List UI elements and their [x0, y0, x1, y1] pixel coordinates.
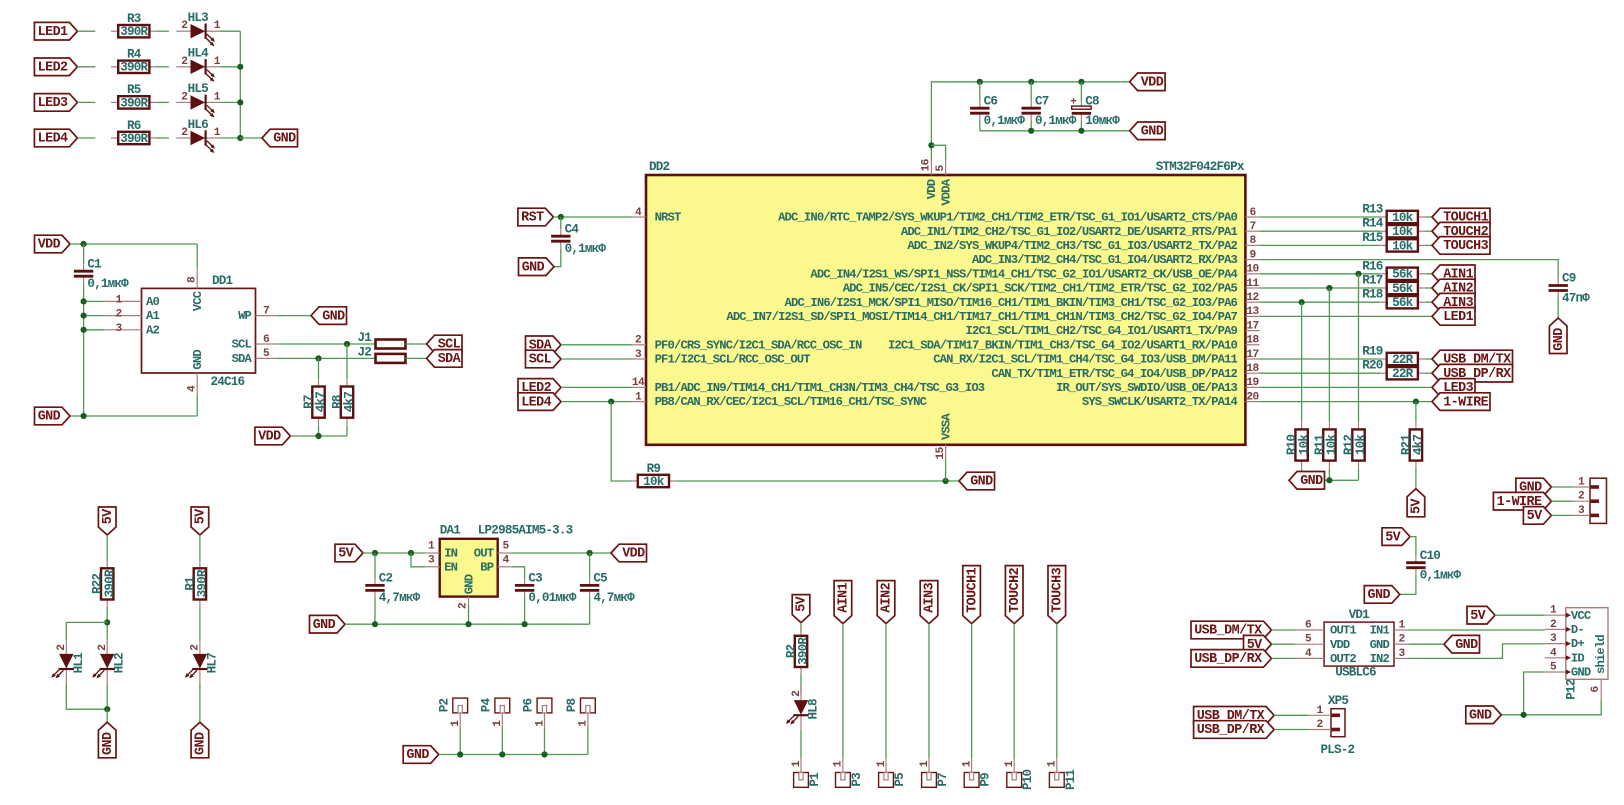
svg-text:R20: R20	[1362, 359, 1383, 373]
svg-text:OUT2: OUT2	[1330, 652, 1356, 666]
wire R9 to GND	[676, 480, 959, 482]
ic VD1 USBLC6	[1295, 608, 1408, 679]
wire VDDA branch	[931, 145, 945, 161]
svg-text:GND: GND	[1571, 666, 1591, 680]
resistor R18	[1380, 296, 1426, 310]
wire	[1551, 486, 1572, 488]
svg-text:P1: P1	[808, 772, 822, 787]
global label TOUCH3	[1048, 566, 1066, 624]
wire	[842, 624, 844, 759]
wire	[1260, 287, 1380, 289]
svg-text:14: 14	[632, 377, 645, 389]
svg-text:GND: GND	[38, 410, 61, 425]
global label AIN3	[920, 581, 938, 624]
global label LED2	[34, 58, 77, 76]
global label GND	[98, 722, 116, 758]
svg-text:GND: GND	[462, 574, 476, 594]
ic DD2 STM32F042F6Px	[632, 158, 1260, 459]
resistor R4	[111, 48, 157, 75]
svg-text:ID: ID	[1571, 651, 1584, 665]
svg-text:10k: 10k	[1392, 225, 1414, 239]
svg-text:P3: P3	[850, 773, 864, 787]
wire	[318, 425, 320, 436]
junction	[408, 550, 414, 556]
svg-text:22R: 22R	[1392, 353, 1414, 367]
svg-text:C8: C8	[1085, 94, 1099, 108]
svg-text:C1: C1	[87, 257, 102, 271]
wire	[220, 137, 240, 139]
svg-text:CAN_RX/I2C1_SCL/TIM1_CH4/TSC_G: CAN_RX/I2C1_SCL/TIM1_CH4/TSC_G4_IO3/USB_…	[933, 353, 1237, 367]
global label AIN2	[877, 581, 895, 624]
wire RST net	[553, 216, 632, 218]
svg-text:SCL: SCL	[232, 338, 252, 352]
junction	[1078, 79, 1084, 85]
wire EN	[411, 553, 426, 567]
pad P4	[480, 698, 510, 728]
wire	[199, 684, 201, 723]
wire	[1425, 301, 1432, 303]
svg-text:0,1мкФ: 0,1мкФ	[87, 277, 129, 291]
svg-text:GND: GND	[1368, 588, 1391, 603]
capacitor C4	[551, 222, 606, 256]
wire C2	[374, 553, 376, 578]
wire VDD rail	[931, 82, 1129, 161]
capacitor C3	[515, 572, 577, 606]
svg-text:HL7: HL7	[205, 653, 219, 674]
svg-text:LED2: LED2	[38, 61, 68, 76]
svg-text:5V: 5V	[1410, 498, 1425, 514]
svg-text:1: 1	[534, 720, 546, 727]
svg-text:GND: GND	[101, 732, 116, 755]
wire VDD out	[512, 552, 611, 554]
svg-text:LED1: LED1	[38, 25, 68, 40]
svg-text:I2C1_SCL/TIM1_CH2/TSC_G4_IO1/U: I2C1_SCL/TIM1_CH2/TSC_G4_IO1/USART1_TX/P…	[966, 324, 1238, 338]
svg-text:11: 11	[1246, 278, 1259, 290]
svg-text:2: 2	[1398, 634, 1405, 646]
wire	[1056, 624, 1058, 759]
junction	[587, 550, 593, 556]
wire	[77, 30, 95, 32]
svg-text:STM32F042F6Px: STM32F042F6Px	[1156, 160, 1245, 174]
svg-text:390R: 390R	[120, 96, 148, 110]
svg-text:VDD: VDD	[1330, 638, 1350, 652]
svg-text:9: 9	[1249, 249, 1256, 261]
global label 5V	[1467, 606, 1495, 624]
svg-text:1: 1	[919, 760, 931, 767]
svg-text:56k: 56k	[1392, 268, 1414, 282]
resistor R1	[183, 561, 209, 607]
global label GND	[1516, 478, 1552, 496]
svg-text:EN: EN	[444, 560, 457, 574]
wire	[1425, 230, 1432, 232]
junction	[558, 214, 564, 220]
svg-text:P9: P9	[979, 773, 993, 787]
svg-text:2: 2	[190, 644, 202, 651]
wire	[199, 535, 201, 561]
junction	[943, 478, 949, 484]
svg-text:TOUCH3: TOUCH3	[1443, 239, 1488, 254]
svg-text:BP: BP	[480, 560, 493, 574]
svg-text:4: 4	[1550, 647, 1557, 659]
resistor R13	[1380, 211, 1426, 225]
svg-text:GND: GND	[522, 260, 545, 275]
connector P12	[1545, 605, 1608, 701]
global label GND	[1130, 122, 1166, 140]
pad P3	[833, 758, 864, 787]
svg-text:GND: GND	[1370, 638, 1390, 652]
wire	[1260, 301, 1380, 303]
svg-text:56k: 56k	[1392, 282, 1414, 296]
svg-text:D-: D-	[1571, 623, 1584, 637]
wire	[406, 343, 427, 345]
svg-text:2: 2	[635, 335, 642, 347]
svg-text:10k: 10k	[1392, 211, 1414, 225]
wire	[1425, 244, 1432, 246]
wire	[1358, 468, 1360, 480]
global label 5V	[792, 595, 810, 623]
svg-text:NRST: NRST	[655, 211, 681, 225]
wire	[800, 730, 802, 759]
global label GND	[1444, 635, 1480, 653]
wire	[1013, 624, 1015, 759]
svg-text:4: 4	[502, 555, 509, 567]
global label GND	[262, 129, 298, 147]
wire	[77, 137, 95, 139]
wire	[1272, 643, 1296, 645]
global label VDD	[611, 544, 647, 562]
wire HL1 branch	[66, 622, 107, 639]
wire	[501, 727, 503, 754]
svg-text:1: 1	[635, 391, 642, 403]
svg-text:5: 5	[935, 165, 947, 172]
global label 5V	[98, 507, 116, 535]
wire HL1 return	[66, 684, 107, 710]
svg-text:390R: 390R	[103, 569, 117, 597]
svg-text:10: 10	[1246, 264, 1259, 276]
svg-text:P2: P2	[437, 699, 451, 713]
capacitor C6	[970, 94, 1025, 128]
svg-text:1: 1	[1550, 605, 1557, 617]
junction	[1521, 712, 1527, 718]
wire	[1260, 216, 1380, 218]
svg-text:20: 20	[1246, 391, 1259, 403]
wire BP	[512, 567, 525, 579]
capacitor C10	[1406, 549, 1461, 583]
wire	[1030, 120, 1032, 131]
global label LED4	[34, 129, 77, 147]
resistor R19	[1380, 353, 1426, 367]
wire	[1274, 729, 1308, 731]
wire	[459, 727, 461, 754]
svg-text:2: 2	[1578, 491, 1585, 503]
wire	[561, 401, 632, 403]
wire	[1260, 273, 1380, 275]
wire SCL net	[277, 343, 376, 345]
wire 5V to C10	[1410, 537, 1416, 556]
wire	[199, 607, 201, 640]
LED HL4	[176, 47, 220, 82]
svg-text:1: 1	[1578, 477, 1585, 489]
junction	[81, 327, 87, 333]
capacitor C2	[365, 572, 420, 606]
svg-text:OUT1: OUT1	[1330, 624, 1356, 638]
wire	[1260, 372, 1380, 374]
wire	[240, 137, 262, 139]
global label GND	[403, 746, 439, 764]
wire	[1260, 386, 1432, 388]
svg-text:P4: P4	[480, 698, 494, 713]
svg-text:TOUCH2: TOUCH2	[1008, 567, 1023, 612]
wire	[1328, 468, 1330, 480]
wire	[84, 315, 105, 317]
svg-text:GND: GND	[1141, 125, 1164, 140]
resistor R11	[1313, 422, 1339, 468]
svg-text:IN: IN	[444, 547, 457, 561]
svg-text:HL2: HL2	[113, 653, 127, 674]
svg-text:VDD: VDD	[622, 547, 645, 562]
svg-text:390R: 390R	[120, 132, 148, 146]
junction	[608, 399, 614, 405]
svg-text:1: 1	[1047, 760, 1059, 767]
svg-text:3: 3	[428, 555, 435, 567]
svg-text:A2: A2	[146, 323, 159, 337]
svg-text:GND: GND	[1469, 709, 1492, 724]
svg-text:R19: R19	[1362, 345, 1383, 359]
svg-text:A0: A0	[146, 295, 159, 309]
svg-text:17: 17	[1246, 349, 1258, 361]
wire	[561, 344, 632, 346]
svg-text:CAN_TX/TIM1_ETR/TSC_G4_IO4/USB: CAN_TX/TIM1_ETR/TSC_G4_IO4/USB_DP/PA12	[991, 367, 1237, 381]
wire 1-WIRE pullup	[1415, 402, 1417, 422]
wire	[1272, 657, 1296, 659]
capacitor C1	[74, 257, 129, 291]
global label AIN1	[1432, 265, 1475, 283]
wire	[544, 727, 546, 754]
wire	[1557, 298, 1559, 319]
svg-text:LED4: LED4	[521, 395, 551, 410]
svg-text:5: 5	[1550, 662, 1557, 674]
svg-text:HL4: HL4	[188, 47, 210, 61]
wire	[1080, 82, 1082, 101]
wire	[561, 358, 632, 360]
svg-text:390R: 390R	[797, 637, 811, 665]
svg-text:D+: D+	[1571, 637, 1584, 651]
wire	[106, 607, 108, 640]
svg-text:18: 18	[1246, 363, 1259, 375]
capacitor C9	[1549, 272, 1591, 306]
svg-text:1: 1	[214, 91, 221, 103]
wire tap PA6	[1301, 302, 1303, 422]
svg-text:18: 18	[1246, 335, 1259, 347]
svg-text:PB8/CAN_RX/CEC/I2C1_SCL/TIM16_: PB8/CAN_RX/CEC/I2C1_SCL/TIM16_CH1/TSC_SY…	[655, 395, 927, 409]
junction	[81, 298, 87, 304]
resistor R6	[111, 119, 157, 146]
global label TOUCH3	[1432, 237, 1490, 255]
svg-text:2: 2	[1316, 719, 1323, 731]
resistor R21	[1399, 422, 1425, 468]
svg-text:R9: R9	[647, 462, 661, 476]
svg-text:0,1мкФ: 0,1мкФ	[1420, 569, 1462, 583]
global label GND	[311, 307, 347, 325]
svg-text:10k: 10k	[1325, 434, 1339, 456]
svg-text:ADC_IN6/I2S1_MCK/SPI1_MISO/TIM: ADC_IN6/I2S1_MCK/SPI1_MISO/TIM16_CH1/TIM…	[785, 296, 1238, 310]
junction	[1078, 128, 1084, 134]
resistor R14	[1380, 225, 1426, 239]
global label LED2	[518, 379, 561, 397]
svg-text:GND: GND	[313, 618, 336, 633]
svg-text:3: 3	[1550, 633, 1557, 645]
svg-text:5: 5	[1305, 634, 1312, 646]
svg-text:1: 1	[492, 720, 504, 727]
wire	[406, 357, 427, 359]
wire	[800, 674, 802, 693]
wire	[196, 244, 198, 267]
svg-text:R15: R15	[1362, 231, 1383, 245]
capacitor C8	[1070, 94, 1120, 128]
svg-text:HL1: HL1	[72, 652, 86, 674]
svg-text:ADC_IN4/I2S1_WS/SPI1_NSS/TIM14: ADC_IN4/I2S1_WS/SPI1_NSS/TIM14_CH1/TSC_G…	[810, 267, 1237, 281]
svg-text:ADC_IN1/TIM2_CH2/TSC_G1_IO2/US: ADC_IN1/TIM2_CH2/TSC_G1_IO2/USART2_DE/US…	[901, 225, 1238, 239]
global label AIN3	[1432, 293, 1475, 311]
svg-text:GND: GND	[970, 475, 993, 490]
svg-text:VDDA: VDDA	[939, 178, 953, 205]
svg-text:VCC: VCC	[1571, 609, 1591, 623]
svg-text:AIN2: AIN2	[880, 582, 895, 612]
global label GND	[191, 722, 209, 758]
svg-text:C2: C2	[379, 572, 393, 586]
svg-text:GND: GND	[406, 748, 429, 763]
global label AIN1	[834, 581, 852, 624]
svg-text:VD1: VD1	[1349, 608, 1371, 622]
wire GND rail	[345, 623, 590, 625]
wire	[561, 386, 632, 388]
global label USB_DP/RX	[1432, 364, 1513, 382]
svg-text:J2: J2	[358, 346, 372, 360]
global label 5V	[191, 507, 209, 535]
global label TOUCH1	[1432, 208, 1490, 226]
global label GND	[1549, 318, 1567, 354]
wire	[1030, 82, 1032, 101]
wire	[220, 66, 240, 68]
global label LED4	[518, 393, 561, 411]
junction	[1299, 299, 1305, 305]
svg-text:LED4: LED4	[38, 132, 68, 147]
svg-text:10k: 10k	[1297, 434, 1311, 456]
wire	[196, 394, 198, 416]
svg-text:GND: GND	[1455, 638, 1478, 653]
svg-text:2: 2	[1550, 619, 1557, 631]
svg-text:A1: A1	[146, 309, 159, 323]
svg-text:5V: 5V	[194, 508, 209, 524]
connector XP5 PLS-2	[1308, 694, 1355, 757]
svg-text:WP: WP	[238, 309, 251, 323]
svg-text:5: 5	[263, 348, 270, 360]
svg-text:7: 7	[1249, 221, 1255, 233]
wire GND pin5	[1524, 672, 1545, 715]
svg-text:R14: R14	[1362, 217, 1384, 231]
junction	[315, 355, 321, 361]
svg-text:10мкФ: 10мкФ	[1085, 114, 1120, 128]
svg-text:GND: GND	[1300, 474, 1323, 489]
svg-text:1: 1	[1398, 620, 1405, 632]
pad P8	[565, 698, 595, 727]
wire	[1425, 358, 1432, 360]
svg-text:5V: 5V	[1470, 609, 1486, 624]
global label VDD	[35, 235, 71, 253]
wire	[83, 283, 85, 416]
svg-text:VCC: VCC	[191, 291, 205, 311]
wire	[885, 624, 887, 759]
global label GND	[959, 472, 995, 490]
svg-text:C5: C5	[593, 572, 607, 586]
svg-text:8: 8	[1249, 235, 1256, 247]
svg-text:0,1мкФ: 0,1мкФ	[1035, 114, 1077, 128]
svg-text:56k: 56k	[1392, 296, 1414, 310]
svg-text:5V: 5V	[795, 595, 810, 611]
wire	[70, 415, 197, 417]
wire	[800, 623, 802, 632]
svg-text:R16: R16	[1362, 259, 1383, 273]
wire DA1 GND	[468, 604, 470, 624]
svg-text:1: 1	[578, 720, 590, 727]
pad P2	[437, 698, 467, 727]
svg-text:2: 2	[97, 644, 109, 651]
svg-text:DD2: DD2	[649, 160, 670, 174]
svg-text:P12: P12	[1564, 679, 1578, 700]
svg-text:390R: 390R	[196, 569, 210, 597]
svg-text:R4: R4	[127, 48, 142, 62]
LED HL8	[786, 686, 821, 730]
pad P1	[791, 758, 822, 787]
svg-text:24C16: 24C16	[211, 375, 245, 389]
svg-text:USBLC6: USBLC6	[1335, 665, 1376, 679]
ic DA1 LP2985	[426, 523, 573, 609]
junction	[928, 142, 934, 148]
LED HL3	[176, 11, 220, 46]
svg-text:I2C1_SDA/TIM17_BKIN/TIM1_CH3/T: I2C1_SDA/TIM17_BKIN/TIM1_CH3/TSC_G4_IO2/…	[888, 338, 1238, 352]
junction	[81, 413, 87, 419]
junction	[1355, 271, 1361, 277]
connector XP 3pin	[1573, 477, 1607, 524]
LED HL1	[51, 640, 86, 684]
svg-text:IN1: IN1	[1370, 624, 1390, 638]
svg-text:6: 6	[1305, 620, 1312, 632]
svg-text:IN2: IN2	[1370, 652, 1390, 666]
svg-text:USB_DP/RX: USB_DP/RX	[1194, 652, 1263, 667]
pad P10	[1004, 758, 1035, 790]
svg-text:LP2985AIM5-3.3: LP2985AIM5-3.3	[478, 523, 573, 537]
svg-text:VDD: VDD	[38, 238, 61, 253]
svg-text:P7: P7	[936, 773, 950, 787]
junction	[1299, 477, 1305, 483]
junction	[1326, 477, 1332, 483]
junction	[1413, 399, 1419, 405]
svg-text:VDD: VDD	[925, 179, 939, 199]
resistor R17	[1380, 282, 1426, 296]
svg-text:HL5: HL5	[188, 82, 209, 96]
svg-text:DD1: DD1	[212, 274, 234, 288]
wire C5	[589, 553, 591, 578]
wire	[290, 435, 347, 437]
global label GND	[519, 258, 555, 276]
svg-text:1: 1	[1004, 760, 1016, 767]
pad P6	[522, 698, 552, 727]
svg-text:DA1: DA1	[440, 523, 462, 537]
wire led cathode bus	[239, 31, 241, 138]
global label 5V	[335, 544, 363, 562]
wire	[1551, 500, 1572, 502]
svg-text:GND: GND	[322, 309, 345, 324]
